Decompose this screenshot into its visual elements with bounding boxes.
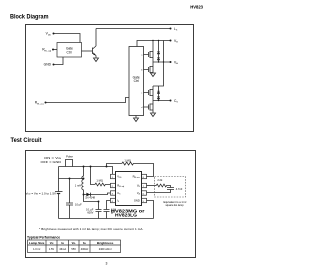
svg-text:1N 4148: 1N 4148 [85, 195, 95, 199]
svg-text:Brightness: Brightness [97, 241, 114, 245]
svg-text:2400 cd/m²: 2400 cd/m² [99, 247, 112, 251]
svg-text:3: 3 [106, 262, 108, 266]
svg-text:Typical Performance: Typical Performance [27, 236, 60, 240]
svg-text:GND: GND [44, 63, 52, 67]
svg-text:1 mH: 1 mH [75, 183, 81, 187]
svg-text:VDD = VIN = 1.0 to 1.5V: VDD = VIN = 1.0 to 1.5V [26, 191, 57, 195]
svg-text:HV823: HV823 [190, 5, 203, 10]
svg-text:400Hz: 400Hz [81, 247, 89, 251]
svg-text:55V: 55V [71, 247, 76, 251]
svg-text:1.0 in²: 1.0 in² [33, 247, 40, 251]
svg-text:d: d [141, 107, 142, 109]
svg-text:Pulse: Pulse [66, 154, 73, 158]
svg-text:Lamp Size: Lamp Size [29, 241, 45, 245]
svg-text:46mA: 46mA [59, 247, 66, 251]
svg-text:square EL lamp: square EL lamp [166, 203, 185, 207]
svg-text:1 MΩ: 1 MΩ [96, 178, 103, 182]
svg-text:1.5V: 1.5V [49, 247, 55, 251]
svg-text:HV823LG: HV823LG [115, 213, 137, 218]
svg-text:600V: 600V [87, 211, 93, 215]
svg-text:1 MΩ: 1 MΩ [124, 158, 131, 162]
svg-text:Test Circuit: Test Circuit [11, 137, 43, 144]
svg-text:* Brightness measured with 1 i: * Brightness measured with 1 in² EL lamp… [39, 227, 144, 231]
svg-text:Ctrl: Ctrl [67, 50, 72, 54]
svg-text:Ctrl: Ctrl [134, 79, 139, 83]
svg-text:Block Diagram: Block Diagram [10, 14, 49, 21]
svg-text:OFF = GND: OFF = GND [41, 160, 62, 164]
svg-text:10 µF: 10 µF [75, 203, 82, 207]
svg-text:2.2k: 2.2k [157, 178, 163, 182]
svg-text:4.7nF: 4.7nF [176, 187, 183, 191]
svg-text:c: c [141, 93, 142, 95]
svg-text:GND: GND [134, 199, 140, 203]
